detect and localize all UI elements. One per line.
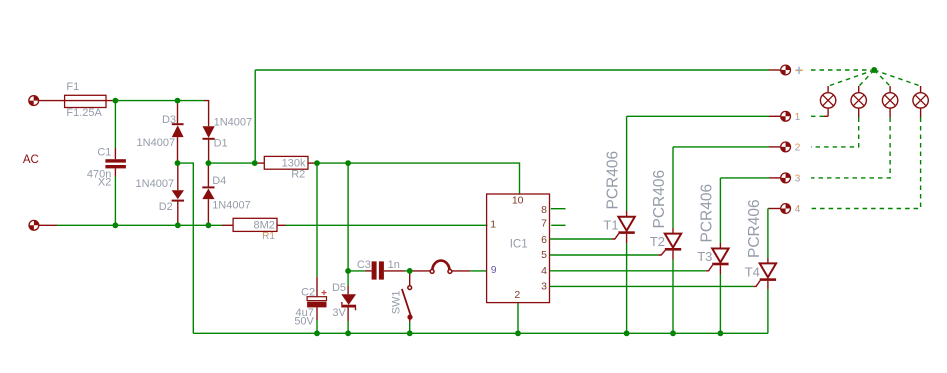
svg-text:D2: D2 (159, 201, 173, 213)
svg-text:D5: D5 (332, 282, 346, 294)
svg-text:AC: AC (23, 154, 39, 166)
svg-text:D3: D3 (162, 114, 176, 126)
svg-text:F1: F1 (66, 81, 79, 93)
svg-text:8M2: 8M2 (253, 219, 274, 231)
svg-text:PCR406: PCR406 (746, 199, 763, 258)
svg-text:SW1: SW1 (391, 290, 403, 314)
svg-text:1n: 1n (388, 259, 400, 271)
svg-text:1: 1 (490, 218, 496, 230)
svg-text:9: 9 (491, 264, 497, 276)
svg-text:50V: 50V (294, 315, 314, 327)
svg-text:1: 1 (795, 112, 801, 123)
svg-text:C2: C2 (301, 287, 315, 299)
svg-text:PCR406: PCR406 (605, 151, 622, 210)
svg-text:F1.25A: F1.25A (66, 107, 102, 119)
svg-text:D4: D4 (212, 175, 226, 187)
svg-text:1N4007: 1N4007 (136, 178, 175, 190)
svg-text:6: 6 (541, 234, 547, 246)
svg-text:1N4007: 1N4007 (214, 117, 253, 129)
svg-text:C3: C3 (357, 259, 371, 271)
svg-text:T1: T1 (603, 218, 618, 233)
svg-text:T4: T4 (745, 265, 760, 280)
svg-text:T2: T2 (650, 234, 665, 249)
svg-text:1N4007: 1N4007 (212, 199, 251, 211)
svg-text:C1: C1 (97, 146, 111, 158)
svg-text:4: 4 (795, 204, 801, 215)
svg-text:R2: R2 (291, 168, 305, 180)
svg-text:2: 2 (795, 143, 801, 154)
svg-text:IC1: IC1 (510, 239, 528, 251)
svg-text:PCR406: PCR406 (698, 184, 715, 243)
svg-text:D1: D1 (214, 138, 228, 150)
svg-text:3: 3 (541, 281, 547, 293)
svg-text:R1: R1 (262, 231, 275, 242)
svg-text:T3: T3 (697, 249, 712, 264)
svg-text:10: 10 (512, 195, 524, 207)
svg-text:1N4007: 1N4007 (137, 137, 176, 149)
svg-text:X2: X2 (98, 177, 111, 189)
svg-text:3V: 3V (332, 307, 346, 319)
svg-text:PCR406: PCR406 (651, 170, 668, 229)
svg-text:4: 4 (541, 265, 547, 277)
svg-text:3: 3 (795, 174, 801, 185)
svg-text:5: 5 (541, 249, 547, 261)
svg-text:7: 7 (541, 217, 547, 229)
svg-text:8: 8 (541, 204, 547, 216)
svg-text:2: 2 (514, 289, 520, 301)
